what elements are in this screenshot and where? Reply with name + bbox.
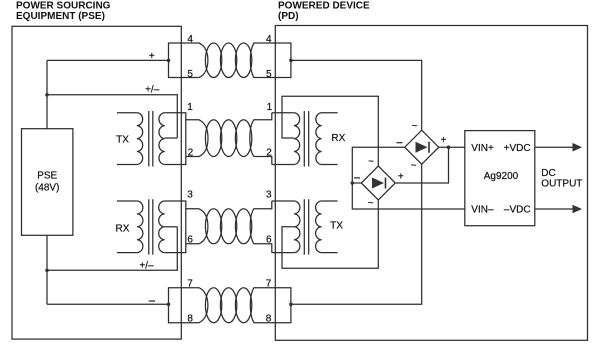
junction dot at pair4/5 left box	[167, 59, 171, 63]
junction dot pair 4/5 right	[289, 59, 293, 63]
svg-text:3: 3	[187, 190, 193, 201]
twisted pair 3/6 loop 3	[235, 209, 251, 244]
node BR2 - label	[354, 177, 360, 179]
transformer T2 core	[304, 111, 308, 167]
junction dot +/- lower	[45, 269, 49, 273]
arrowhead -VDC	[573, 205, 583, 214]
node +/- label upper	[145, 85, 160, 96]
pin label 5 right	[266, 69, 272, 80]
svg-text:5: 5	[266, 69, 272, 80]
svg-text:+: +	[441, 135, 447, 146]
junction dot plus rail	[447, 145, 451, 149]
pair 7/8 right connector box	[250, 288, 291, 323]
transformer T2 PD RX primary winding	[294, 113, 300, 165]
svg-text:TX: TX	[330, 220, 343, 231]
pair 1/2 right connector box with steps	[250, 113, 272, 165]
wire BR1 minus to VIN- rail	[352, 147, 465, 209]
wire pin3 box to T4 primary top	[272, 200, 294, 202]
node + label	[149, 51, 155, 62]
twisted pair 1/2 loop 1	[205, 120, 221, 157]
svg-text:4: 4	[266, 34, 272, 45]
wire T1 secondary pin1 with step	[165, 113, 186, 120]
PSE (48V) source box	[22, 129, 73, 236]
wire +VDC output	[535, 146, 574, 148]
svg-text:4: 4	[187, 34, 193, 45]
svg-text:+/–: +/–	[139, 260, 154, 271]
svg-text:~: ~	[368, 157, 374, 168]
diode BR2 symbol	[372, 178, 384, 189]
wire PSE bus vertical lower	[46, 235, 48, 304]
junction dot pair 7/8 right	[289, 303, 293, 307]
svg-text:POWERED DEVICE: POWERED DEVICE	[278, 1, 370, 12]
wire T3 secondary pin6 with step	[165, 244, 186, 253]
pin label 4 right	[266, 34, 272, 45]
transformer T1 PSE TX primary lead bottom	[117, 164, 137, 166]
wire pin6 box to T4 primary bottom	[272, 252, 294, 254]
module U1 Ag9200 box	[465, 131, 535, 226]
twisted pair 3/6 loop 1	[205, 209, 221, 244]
svg-text:RX: RX	[331, 133, 345, 144]
pin label 7 left	[187, 279, 193, 290]
svg-text:+: +	[398, 172, 404, 183]
transformer T1 PSE TX primary winding	[137, 113, 143, 165]
node BR2 ~ bottom label	[368, 198, 374, 209]
pair 7/8 left connector box	[169, 288, 208, 323]
pin label 8 left	[187, 313, 193, 324]
twisted pair 4/5 loop 1	[205, 43, 221, 78]
svg-text:2: 2	[266, 147, 272, 158]
transformer T3 PSE RX secondary winding	[159, 201, 165, 253]
pin label 2 right	[266, 147, 272, 158]
transformer T4 PD TX secondary winding	[316, 201, 322, 253]
svg-text:6: 6	[187, 235, 193, 246]
wire T2 secondary top lead	[322, 112, 338, 114]
node BR2 ~ top label	[368, 157, 374, 168]
pair 4/5 left connector box	[169, 43, 208, 78]
wire - feed to pair 7/8	[47, 303, 169, 305]
pair 1/2 left connector box	[186, 120, 208, 157]
node DC OUTPUT label	[541, 168, 582, 189]
svg-text:3: 3	[266, 190, 272, 201]
transformer T1 PSE TX secondary winding	[159, 113, 165, 165]
transformer T1 label TX	[116, 135, 129, 146]
wire pair 4/5 to upper bridge	[291, 60, 422, 130]
node BR1 + label	[441, 135, 447, 146]
svg-text:VIN+: VIN+	[471, 143, 494, 154]
pin label 7 right	[266, 279, 272, 290]
diode BR1 symbol	[416, 142, 428, 153]
wire T2 secondary bottom lead	[322, 164, 338, 166]
twisted pair 7/8 loop 1	[205, 288, 221, 323]
arrowhead +VDC	[573, 143, 583, 152]
wire T3 secondary pin3 with step	[165, 201, 186, 209]
twisted pair 4/5 loop 3	[235, 43, 251, 78]
svg-text:EQUIPMENT (PSE): EQUIPMENT (PSE)	[16, 11, 105, 22]
transformer T3 PSE RX primary winding	[137, 201, 143, 253]
svg-text:POWER SOURCING: POWER SOURCING	[16, 1, 111, 12]
svg-text:1: 1	[187, 102, 193, 113]
svg-text:+VDC: +VDC	[504, 143, 531, 154]
svg-text:~: ~	[412, 121, 418, 132]
twisted pair 3/6 loop 2	[220, 209, 236, 244]
transformer T4 PD TX primary winding	[294, 201, 300, 253]
pair 3/6 left connector box	[186, 209, 208, 244]
wire T1 center tap	[165, 137, 178, 139]
wire + feed to pair 4/5	[47, 59, 169, 61]
svg-text:1: 1	[267, 102, 273, 113]
wire +/- feed upper	[47, 95, 177, 138]
PD outer enclosure box	[275, 26, 587, 341]
pin label 6 right	[266, 235, 272, 246]
transformer T1 PSE TX primary lead top	[117, 112, 137, 114]
PSE outer enclosure box	[12, 26, 181, 339]
svg-text:6: 6	[266, 235, 272, 246]
wire T3 center tap	[165, 226, 178, 228]
node BR1 - label	[397, 142, 403, 144]
wire PSE positive bus vertical upper	[46, 60, 48, 128]
wire BR2 minus to rail	[352, 182, 361, 184]
junction dot minus rail	[351, 181, 355, 185]
pin label 8 right	[266, 313, 272, 324]
junction dot at pair7/8 left box	[167, 303, 171, 307]
transformer T3 PSE RX primary lead top	[117, 200, 137, 202]
svg-text:PSE: PSE	[37, 170, 57, 181]
svg-text:8: 8	[266, 313, 272, 324]
wire T1 secondary pin2 with step	[165, 157, 186, 165]
twisted pair 7/8 loop 2	[220, 288, 236, 323]
svg-text:7: 7	[266, 279, 272, 290]
svg-text:TX: TX	[116, 135, 129, 146]
pin label 1 right	[267, 102, 273, 113]
svg-text:~: ~	[368, 198, 374, 209]
wire plus rail to BR2	[395, 147, 448, 183]
node - label	[149, 300, 155, 302]
transformer T1 core	[149, 111, 153, 167]
bridge rectifier BR1 upper diamond	[405, 130, 439, 164]
node +/- label lower	[139, 260, 154, 271]
pin label 5 left	[187, 69, 193, 80]
svg-text:+: +	[149, 51, 155, 62]
wire pin2 box to T2 primary bottom	[272, 164, 294, 166]
svg-text:7: 7	[187, 279, 193, 290]
svg-text:OUTPUT: OUTPUT	[541, 178, 582, 189]
wire BR1 plus to VIN+	[439, 146, 465, 148]
wire -VDC output	[535, 208, 574, 210]
bridge rectifier BR2 lower diamond	[361, 166, 395, 200]
transformer T3 core	[149, 199, 153, 254]
transformer T3 PSE RX primary lead bottom	[117, 252, 137, 254]
transformer T2 label RX	[331, 133, 345, 144]
svg-text:2: 2	[188, 147, 194, 158]
wire pair 7/8 to upper bridge bottom	[291, 164, 422, 304]
node BR2 + label	[398, 172, 404, 183]
svg-text:8: 8	[187, 313, 193, 324]
pin label 4 left	[187, 34, 193, 45]
svg-text:(48V): (48V)	[35, 182, 59, 193]
pin label 3 right	[266, 190, 272, 201]
wire +/- feed lower	[47, 227, 177, 270]
svg-text:RX: RX	[116, 223, 130, 234]
junction dot +/- upper	[45, 93, 49, 97]
svg-text:(PD): (PD)	[278, 11, 299, 22]
node PSE header text	[16, 1, 111, 23]
svg-text:Ag9200: Ag9200	[484, 171, 519, 182]
pin label 3 left	[187, 190, 193, 201]
node PD header text	[278, 1, 370, 23]
twisted pair 1/2 loop 3	[235, 120, 251, 157]
svg-text:~: ~	[411, 160, 417, 171]
svg-text:VIN–: VIN–	[471, 205, 494, 216]
wire T4 secondary top lead	[322, 200, 338, 202]
wire T4 center tap to lower bridge bottom	[282, 200, 378, 268]
svg-text:5: 5	[187, 69, 193, 80]
transformer T4 core	[304, 199, 308, 254]
pin label 1 left	[187, 102, 193, 113]
wire T4 secondary bottom lead	[322, 252, 338, 254]
pin label 6 left	[187, 235, 193, 246]
svg-text:+/–: +/–	[145, 85, 160, 96]
twisted pair 1/2 loop 2	[220, 120, 236, 157]
node BR1 ~ top label	[412, 121, 418, 132]
pin label 2 left	[188, 147, 194, 158]
svg-text:–VDC: –VDC	[504, 205, 531, 216]
transformer T4 label TX	[330, 220, 343, 231]
transformer T3 label RX	[116, 223, 130, 234]
transformer T2 PD RX secondary winding	[316, 113, 322, 165]
node BR1 ~ bottom label	[411, 160, 417, 171]
wire T2 center tap to lower bridge top	[282, 96, 378, 166]
pair 4/5 right connector box	[250, 43, 291, 78]
wire pin1 box to T2 primary top	[272, 112, 294, 114]
twisted pair 4/5 loop 2	[220, 43, 236, 78]
twisted pair 7/8 loop 3	[235, 288, 251, 323]
pair 3/6 right connector box with steps	[250, 201, 272, 253]
